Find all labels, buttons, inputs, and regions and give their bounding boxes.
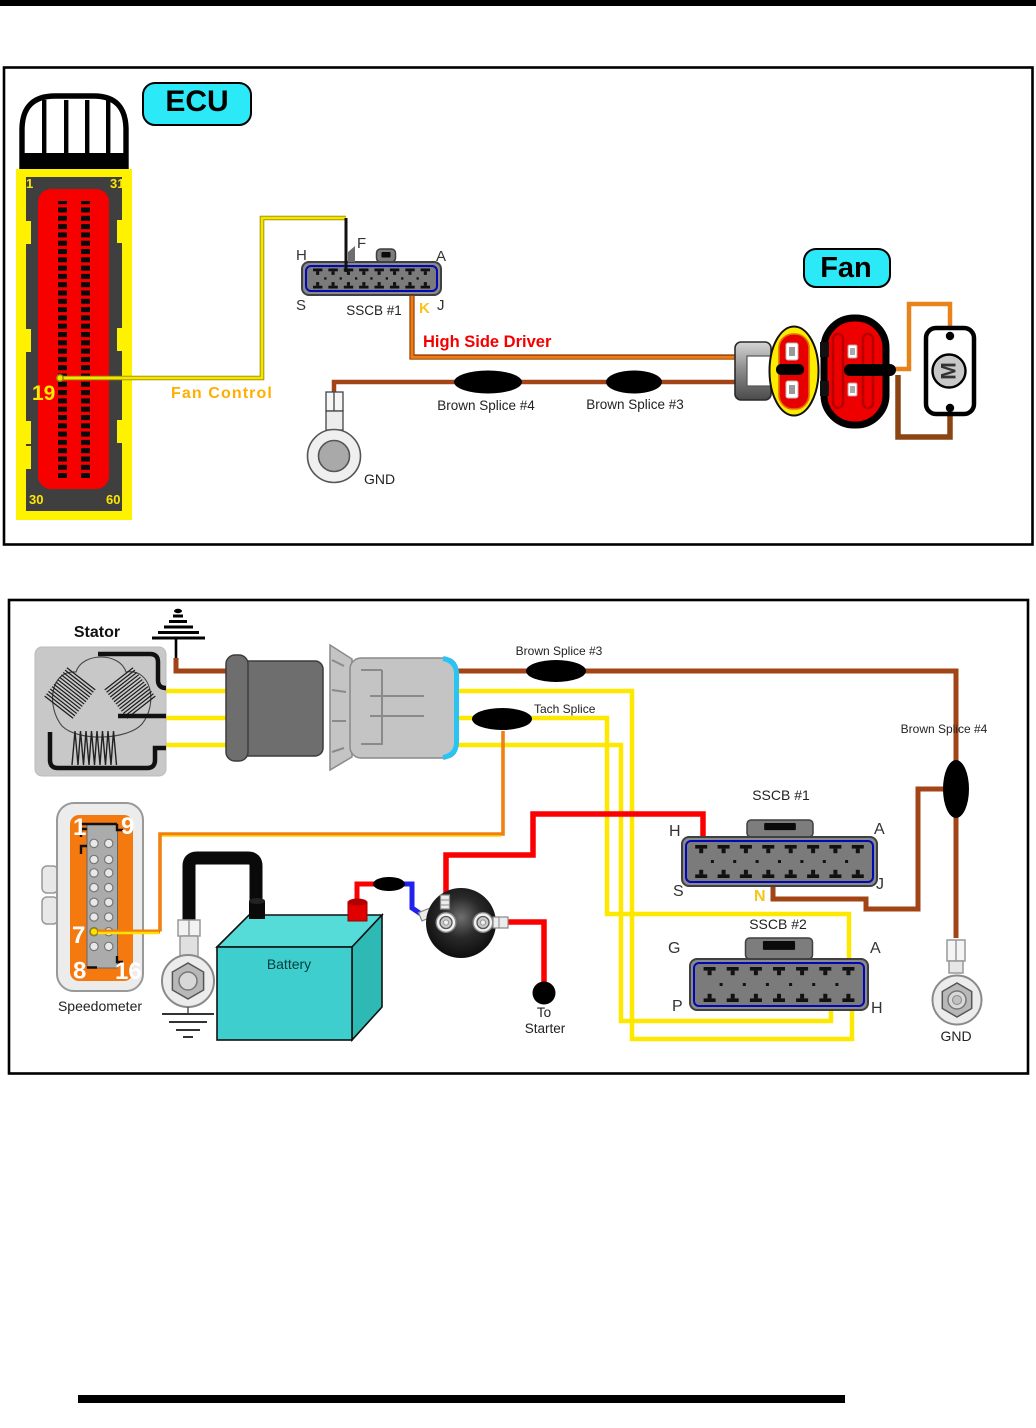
svg-text:SSCB #2: SSCB #2 (749, 916, 807, 932)
svg-text:31: 31 (110, 176, 124, 191)
svg-text:S: S (296, 297, 306, 314)
svg-text:1: 1 (73, 814, 86, 841)
svg-text:F: F (357, 235, 366, 252)
svg-text:Tach Splice: Tach Splice (534, 702, 596, 716)
svg-text:H: H (296, 247, 307, 264)
svg-text:GND: GND (364, 471, 395, 487)
svg-text:N: N (754, 888, 766, 905)
svg-text:H: H (871, 1000, 883, 1017)
svg-text:1: 1 (26, 176, 33, 191)
svg-text:H: H (669, 823, 681, 840)
svg-text:Stator: Stator (74, 624, 120, 641)
svg-text:30: 30 (29, 492, 43, 507)
svg-text:K: K (419, 300, 430, 317)
svg-text:P: P (672, 998, 683, 1015)
svg-text:A: A (870, 940, 881, 957)
svg-text:Brown Splice #3: Brown Splice #3 (586, 397, 684, 412)
svg-text:SSCB #1: SSCB #1 (752, 787, 810, 803)
svg-text:SSCB #1: SSCB #1 (346, 303, 402, 318)
svg-text:9: 9 (121, 813, 134, 840)
svg-text:19: 19 (32, 382, 55, 405)
svg-text:Speedometer: Speedometer (58, 998, 142, 1014)
svg-text:8: 8 (73, 958, 86, 985)
svg-text:J: J (437, 297, 445, 314)
svg-text:M: M (938, 362, 961, 380)
svg-text:To: To (537, 1005, 551, 1020)
svg-text:G: G (668, 940, 680, 957)
svg-text:ECU: ECU (165, 85, 228, 118)
svg-text:Fan: Fan (820, 252, 872, 284)
svg-text:Battery: Battery (267, 956, 311, 972)
svg-text:Starter: Starter (525, 1021, 566, 1036)
svg-text:Brown Splice #4: Brown Splice #4 (901, 722, 988, 736)
svg-text:60: 60 (106, 492, 120, 507)
svg-text:GND: GND (940, 1028, 971, 1044)
svg-text:High Side Driver: High Side Driver (423, 333, 552, 351)
svg-text:Brown Splice #3: Brown Splice #3 (516, 644, 603, 658)
svg-text:S: S (673, 883, 684, 900)
svg-text:A: A (874, 821, 885, 838)
svg-text:7: 7 (72, 922, 85, 949)
svg-text:Fan Control: Fan Control (171, 385, 273, 402)
svg-text:Brown Splice #4: Brown Splice #4 (437, 398, 535, 413)
svg-text:16: 16 (115, 958, 142, 985)
